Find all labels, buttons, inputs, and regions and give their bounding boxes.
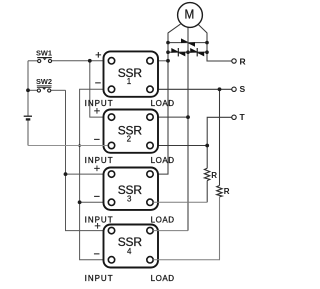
- svg-text:LOAD: LOAD: [151, 216, 175, 225]
- svg-text:R: R: [240, 57, 246, 67]
- svg-text:1: 1: [127, 77, 132, 86]
- svg-text:R: R: [211, 171, 217, 180]
- svg-text:+: +: [95, 50, 101, 62]
- svg-text:INPUT: INPUT: [85, 274, 114, 283]
- svg-text:INPUT: INPUT: [85, 216, 114, 225]
- svg-text:3: 3: [127, 195, 132, 204]
- svg-text:−: −: [94, 191, 100, 203]
- svg-text:4: 4: [127, 247, 132, 256]
- svg-text:2: 2: [127, 134, 132, 143]
- svg-text:SW2: SW2: [36, 77, 52, 86]
- svg-text:S: S: [240, 84, 246, 94]
- svg-text:INPUT: INPUT: [85, 99, 114, 108]
- svg-text:LOAD: LOAD: [151, 156, 175, 165]
- svg-text:LOAD: LOAD: [151, 274, 175, 283]
- svg-text:−: −: [93, 249, 99, 261]
- svg-text:R: R: [224, 187, 230, 196]
- svg-text:LOAD: LOAD: [151, 99, 175, 108]
- svg-text:T: T: [240, 112, 246, 122]
- svg-text:SW1: SW1: [36, 48, 52, 57]
- svg-text:−: −: [95, 78, 101, 90]
- svg-text:INPUT: INPUT: [85, 156, 114, 165]
- svg-text:M: M: [185, 6, 195, 21]
- svg-text:−: −: [94, 134, 100, 146]
